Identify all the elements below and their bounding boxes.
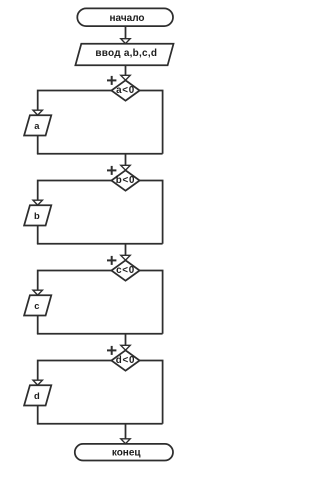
decision diamond a<0 <box>111 80 139 100</box>
svg-text:c: c <box>34 300 39 311</box>
label + (branch of b<0) <box>107 166 116 175</box>
wire b<0 right bypass branch <box>140 181 163 244</box>
wire junction 1 to decision b<0 <box>121 154 130 170</box>
decision diamond b<0 <box>111 170 139 190</box>
wire output c down to bottom rail 3 <box>37 316 39 334</box>
wire a<0 left branch to output a <box>33 91 111 116</box>
svg-text:a<0: a<0 <box>116 85 135 96</box>
output parallelogram c <box>24 295 51 315</box>
wire junction 3 to decision d<0 <box>121 334 130 350</box>
wire d<0 left branch to output d <box>33 361 111 386</box>
svg-text:d<0: d<0 <box>116 355 135 366</box>
label + (branch of d<0) <box>107 346 116 355</box>
svg-text:d: d <box>34 390 40 401</box>
wire начало to ввод <box>121 26 130 43</box>
wire d<0 right bypass branch <box>140 361 163 424</box>
wire c<0 right bypass branch <box>140 271 163 334</box>
wire bottom rail 3 <box>37 333 163 335</box>
decision diamond d<0 <box>111 350 139 370</box>
svg-text:b<0: b<0 <box>116 175 135 186</box>
svg-text:b: b <box>34 210 40 221</box>
wire output a down to bottom rail 1 <box>37 136 39 154</box>
wire junction 2 to decision c<0 <box>121 244 130 260</box>
wire bottom rail 1 <box>37 153 163 155</box>
parallelogram ввод a,b,c,d <box>75 44 173 66</box>
wire c<0 left branch to output c <box>33 271 111 296</box>
output parallelogram b <box>24 205 51 225</box>
wire output d down to bottom rail 4 <box>37 406 39 424</box>
wire b<0 left branch to output b <box>33 181 111 206</box>
svg-text:начало: начало <box>109 13 144 24</box>
wire output b down to bottom rail 2 <box>37 226 39 244</box>
svg-text:a: a <box>34 120 40 131</box>
wire junction 4 to конец <box>121 424 130 444</box>
label + (branch of c<0) <box>107 256 116 265</box>
wire a<0 right bypass branch <box>140 91 163 154</box>
svg-text:конец: конец <box>112 447 142 458</box>
label + (branch of a<0) <box>107 76 116 85</box>
decision diamond c<0 <box>111 260 139 280</box>
output parallelogram a <box>24 115 51 135</box>
terminator начало <box>77 8 173 26</box>
svg-text:c<0: c<0 <box>116 265 135 276</box>
svg-text:ввод a,b,c,d: ввод a,b,c,d <box>95 48 157 59</box>
output parallelogram d <box>24 385 51 405</box>
wire ввод to decision a<0 <box>121 65 130 80</box>
wire bottom rail 4 <box>37 423 163 425</box>
wire bottom rail 2 <box>37 243 163 245</box>
terminator конец <box>75 444 173 461</box>
